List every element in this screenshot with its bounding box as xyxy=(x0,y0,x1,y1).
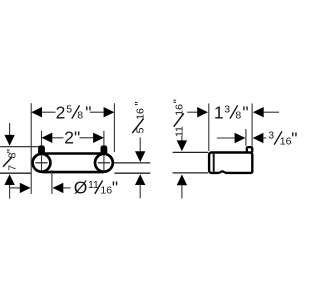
front view: right circle center cross xyxy=(98,155,110,170)
svg-text:": " xyxy=(112,178,118,198)
dimension text 1 3/8 inch xyxy=(214,102,249,122)
dimension 5/16: lower arrow with tail xyxy=(135,174,145,198)
bottom tangent reference line extending right xyxy=(114,172,150,174)
dimension 3/16: nub left extension line xyxy=(245,129,247,146)
svg-text:": " xyxy=(85,102,91,122)
svg-text:Ø: Ø xyxy=(74,178,88,198)
dimension diameter 11/16: right extension line xyxy=(51,170,53,194)
side view: bracket body outline xyxy=(209,153,252,173)
front view: right post circle xyxy=(95,154,113,172)
dimension 1 3/8: right extension line xyxy=(251,104,253,146)
side view: top edge reference line extending left xyxy=(173,151,208,153)
svg-text:7: 7 xyxy=(7,165,19,171)
svg-text:": " xyxy=(291,128,297,148)
dimension text 3/16 inch xyxy=(268,128,297,148)
dimension 11/16 side: lower arrow with tail xyxy=(177,174,187,198)
svg-text:2: 2 xyxy=(56,102,66,122)
dimension 1 3/8: left extension line xyxy=(208,104,210,152)
dimension 2: right extension line xyxy=(103,131,105,145)
dimension 7/8: upper arrow with tail xyxy=(4,123,14,146)
dimension 11/16 side: upper arrow with tail xyxy=(177,136,187,151)
front view: left post nub xyxy=(39,146,44,153)
svg-text:11: 11 xyxy=(173,126,185,137)
svg-text:8: 8 xyxy=(235,110,241,122)
svg-text:5: 5 xyxy=(66,104,72,116)
front view: bar top tangent line xyxy=(42,152,104,155)
nub-top reference line extending to left edge xyxy=(0,146,39,148)
dimension text 5/16 inch rotated xyxy=(132,101,146,133)
dimension 3/16: left arrow with tail xyxy=(217,133,246,143)
svg-text:2": 2" xyxy=(64,128,80,148)
svg-text:": " xyxy=(171,99,185,103)
dimension diameter 11/16: left arrow outside with tail xyxy=(10,183,31,193)
side view: bottom edge reference line extending left xyxy=(173,172,208,174)
dimension 1 3/8: left arrow outside with tail xyxy=(187,107,208,117)
dimension text 7/8 inch rotated xyxy=(3,149,19,171)
svg-text:16: 16 xyxy=(280,136,292,148)
dimension 3/16: right arrow with tail xyxy=(253,133,267,143)
center reference line extending right xyxy=(114,162,150,164)
svg-text:8: 8 xyxy=(77,110,83,122)
dimension text 2 5/8 inch xyxy=(56,102,92,122)
svg-text:": " xyxy=(132,101,146,105)
front view: left post circle xyxy=(33,154,51,172)
side view: bottom notch detail xyxy=(217,171,227,174)
dimension 2 5/8: left arrow xyxy=(31,107,55,117)
dimension 2 5/8: left extension line xyxy=(30,103,32,194)
svg-text:": " xyxy=(242,102,248,122)
front view: left circle center cross xyxy=(35,155,47,170)
dimension text 2 inch xyxy=(64,128,80,148)
side view: wall plate inner line xyxy=(213,154,215,172)
dimension 2: right arrow xyxy=(80,133,104,143)
svg-text:16: 16 xyxy=(100,185,112,197)
dimension 2 5/8: right extension line xyxy=(113,103,115,152)
dimension text 11/16 inch rotated xyxy=(171,99,185,137)
svg-text:1: 1 xyxy=(214,102,224,122)
dimension 2 5/8: right arrow xyxy=(90,107,115,117)
dimension 2: left extension line xyxy=(41,131,43,146)
dimension diameter 11/16: right arrow outside with tail xyxy=(53,183,71,193)
dimension 5/16: upper arrow with tail xyxy=(135,138,145,163)
front view: right post nub xyxy=(102,146,107,153)
bottom tangent reference line extending to left edge xyxy=(0,172,31,174)
svg-text:3: 3 xyxy=(268,130,274,142)
dimension 2: left arrow xyxy=(42,133,64,143)
side view: top rear nub xyxy=(247,147,252,152)
dimension 7/8: lower arrow with tail xyxy=(4,174,14,199)
svg-text:16: 16 xyxy=(135,108,147,120)
svg-text:": " xyxy=(4,149,18,153)
dimension text diameter 11/16 inch xyxy=(74,178,118,198)
svg-text:3: 3 xyxy=(224,104,230,116)
dimension 1 3/8: right arrow outside with tail xyxy=(253,107,279,117)
front view: bar bottom tangent line xyxy=(42,171,104,174)
